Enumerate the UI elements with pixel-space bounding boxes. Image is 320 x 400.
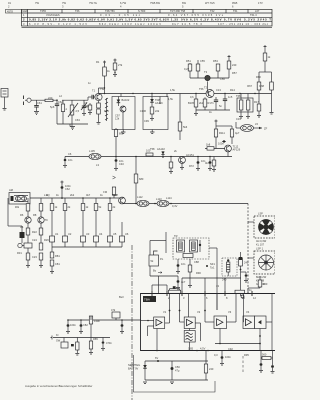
svg-text:C13: C13 <box>216 88 221 92</box>
svg-text:6W: 6W <box>182 1 186 5</box>
svg-text:AC151: AC151 <box>186 153 194 157</box>
svg-text:U5: U5 <box>113 232 117 236</box>
trimmer C3 <box>81 100 87 115</box>
svg-text:C61: C61 <box>37 101 42 105</box>
IF transformer TR2 box <box>236 94 253 117</box>
svg-text:12k: 12k <box>115 117 120 121</box>
svg-text:R95: R95 <box>244 353 249 357</box>
table header text <box>22 9 260 13</box>
tuned circuit frame L1 <box>57 100 88 124</box>
feedback components right <box>248 276 268 294</box>
svg-text:100n: 100n <box>70 323 76 327</box>
svg-text:Ausgabe in verschiedenen/Bae: Ausgabe in verschiedenen/Baenderungen Sc… <box>25 384 93 388</box>
svg-text:VOLTAGES: VOLTAGES <box>46 13 60 17</box>
svg-text:T56: T56 <box>199 87 204 91</box>
svg-text:240: 240 <box>232 63 237 67</box>
svg-text:V2: V2 <box>197 310 201 314</box>
svg-text:9k7 34,5 78,0: 9k7 34,5 78,0 <box>172 22 203 26</box>
cap 470n <box>102 338 104 342</box>
table row1 text <box>23 13 257 17</box>
wiring above box <box>152 278 241 310</box>
speaker box 1 <box>254 212 275 247</box>
svg-text:R72: R72 <box>189 164 194 168</box>
svg-text:C55: C55 <box>200 59 205 63</box>
transistor T1 <box>92 89 102 101</box>
power section boundary <box>134 355 216 392</box>
output transformer dashed box <box>173 234 209 259</box>
svg-text:Bu: Bu <box>153 269 157 273</box>
capacitor C1 <box>34 100 39 111</box>
svg-text:W7.7G5: W7.7G5 <box>205 1 215 5</box>
resistor ladder <box>89 341 92 349</box>
svg-text:T68.T56: T68.T56 <box>105 9 115 13</box>
svg-text:U3: U3 <box>86 232 90 236</box>
svg-text:L67: L67 <box>255 9 260 13</box>
coil L7 on mid rail <box>137 200 149 206</box>
resistor 680 at 136 <box>103 156 144 204</box>
svg-text:R57: R57 <box>232 71 237 75</box>
svg-text:R8: R8 <box>33 213 37 217</box>
svg-text:KL 107: KL 107 <box>256 243 265 247</box>
svg-text:6,7W: 6,7W <box>120 1 127 5</box>
svg-text:4,5V: 4,5V <box>200 347 206 351</box>
padder resistor <box>58 100 65 124</box>
svg-text:C6: C6 <box>68 152 72 156</box>
sheet frame numbers <box>8 1 263 8</box>
ferrite antenna box <box>9 188 30 204</box>
svg-text:Po: Po <box>160 257 164 261</box>
diode D5 <box>143 361 147 384</box>
regulator resistor <box>188 347 214 381</box>
svg-text:C92: C92 <box>228 347 233 351</box>
dash mark vertical <box>242 356 244 374</box>
svg-text:R171: R171 <box>208 101 215 105</box>
speaker feed wires <box>248 204 254 294</box>
resistor chain at 167 <box>167 94 174 102</box>
svg-text:9W5: 9W5 <box>232 1 238 5</box>
switch box <box>61 342 68 348</box>
antenna jack BU1 <box>24 96 32 106</box>
amp stage 2 <box>184 317 195 329</box>
left chain A transistor <box>15 198 38 267</box>
svg-text:R14: R14 <box>230 88 235 92</box>
top-right supply node + <box>227 55 237 78</box>
cap C14 <box>223 94 233 111</box>
svg-text:2k2: 2k2 <box>70 193 75 197</box>
resistor at 150 y155 <box>146 149 153 157</box>
table column line A <box>27 9 29 26</box>
svg-text:7W5.6W: 7W5.6W <box>150 1 160 5</box>
component value labels <box>17 60 261 357</box>
connector circle at box top <box>241 295 244 298</box>
svg-text:47μ: 47μ <box>175 369 180 373</box>
base bias resistor <box>84 101 92 114</box>
svg-text:AM: AM <box>9 188 13 192</box>
svg-text:T61: T61 <box>233 9 238 13</box>
svg-text:R60: R60 <box>256 75 261 79</box>
resistor from IF down at 116 <box>114 128 124 157</box>
right vertical from amp down <box>271 294 273 351</box>
amp stage 3 <box>214 316 227 329</box>
svg-text:TR7.680 T58: TR7.680 T58 <box>170 9 186 13</box>
wire jack to node A <box>31 99 57 101</box>
svg-text:U1: U1 <box>55 232 59 236</box>
left edge feed wire <box>8 198 25 243</box>
svg-text:T68: T68 <box>236 94 241 98</box>
svg-text:5p6: 5p6 <box>50 105 55 109</box>
speaker box 2 <box>254 247 275 287</box>
svg-text:100n: 100n <box>225 355 231 359</box>
svg-text:R90: R90 <box>196 271 201 275</box>
svg-text:BA102: BA102 <box>122 98 130 102</box>
svg-text:NF1: NF1 <box>210 262 215 266</box>
svg-text:LSP 1: LSP 1 <box>256 247 264 251</box>
svg-text:GER: GER <box>22 9 28 13</box>
table bottom double line <box>22 26 273 28</box>
left chain B transistor <box>38 198 48 267</box>
svg-text:6,3V 8,9V- 0,12V 1,52V: 6,3V 8,9V- 0,12V 1,52V <box>29 22 87 26</box>
IC label <box>143 296 156 302</box>
node A junction <box>56 99 58 101</box>
svg-text:140k: 140k <box>94 319 100 323</box>
svg-text:100n: 100n <box>218 142 224 146</box>
filter block under amp2 <box>184 331 195 343</box>
svg-text:C99: C99 <box>144 119 149 123</box>
svg-text:ZF: ZF <box>264 127 268 131</box>
svg-text:240: 240 <box>209 367 214 371</box>
trimmer circle <box>18 243 24 247</box>
capacitor C4 base coupling <box>88 95 95 100</box>
svg-text:C62: C62 <box>58 100 63 104</box>
shielded coil hatch <box>105 98 108 121</box>
svg-text:BATT 9V: BATT 9V <box>128 367 139 371</box>
right resistor R15 <box>247 80 261 94</box>
svg-text:30k: 30k <box>15 205 20 209</box>
svg-text:560: 560 <box>262 353 267 357</box>
svg-text:0,1: 0,1 <box>20 225 24 229</box>
svg-text:0,6: 0,6 <box>190 95 194 99</box>
svg-text:5k6: 5k6 <box>113 193 118 197</box>
transistor T2 <box>204 86 214 98</box>
table header ticks <box>62 9 248 13</box>
resistor 5k6 <box>178 94 188 141</box>
svg-text:R17: R17 <box>254 100 259 104</box>
svg-text:LSP: LSP <box>258 212 263 216</box>
switch contact row <box>50 211 125 248</box>
series resistor to pin <box>239 252 249 296</box>
coupling caps below transformer <box>176 259 192 289</box>
varicap transistor in frame 1 <box>120 106 126 112</box>
diode in frame 1 <box>117 100 121 103</box>
svg-text:C19: C19 <box>236 117 241 121</box>
svg-text:B105: B105 <box>188 101 195 105</box>
svg-text:V1: V1 <box>163 310 167 314</box>
volume pot box <box>149 232 178 294</box>
cap 100n bottom <box>220 351 231 366</box>
svg-text:27k: 27k <box>118 63 123 67</box>
cap C13 <box>214 97 218 110</box>
svg-text:R55: R55 <box>104 109 109 113</box>
capacitor C2 vertical <box>50 100 59 124</box>
resistor R1 horizontal <box>45 99 53 101</box>
IF stage frame 1 <box>112 94 135 130</box>
svg-text:T62: T62 <box>210 9 215 13</box>
cap 10n left end <box>63 157 73 168</box>
svg-text:2,5: 2,5 <box>76 109 80 113</box>
svg-text:1TV: 1TV <box>258 1 263 5</box>
junction dots mid rails <box>61 156 211 205</box>
mid rail left segment <box>62 197 122 199</box>
table row2 text (dark row) <box>23 18 271 22</box>
table row line 2 <box>22 16 273 18</box>
svg-text:1,5k: 1,5k <box>170 88 176 92</box>
T2 bias resistor R11 <box>188 94 198 116</box>
svg-text:0,64 V67.055 0h35 2Vs: 0,64 V67.055 0h35 2Vs <box>168 13 224 17</box>
svg-text:0,85 2,15V 2,1V 2,9k 0,82 0,62: 0,85 2,15V 2,1V 2,9k 0,82 0,62 0,9SV 0,9… <box>29 18 178 22</box>
ground IF frames <box>121 130 155 134</box>
left edge connector top <box>1 89 8 111</box>
svg-text:NETZTEIL: NETZTEIL <box>128 363 141 367</box>
svg-text:C24: C24 <box>32 238 37 242</box>
svg-text:T61.3: T61.3 <box>250 13 257 17</box>
svg-text:V4: V4 <box>246 310 250 314</box>
svg-text:T655: T655 <box>40 9 46 13</box>
svg-text:C88: C88 <box>194 260 199 264</box>
svg-text:L113: L113 <box>156 197 162 201</box>
svg-text:TR: TR <box>174 234 178 238</box>
svg-text:AF126: AF126 <box>233 148 241 152</box>
transistor T5 <box>112 193 125 204</box>
table row line 3 <box>22 21 273 23</box>
switch column drops <box>52 198 110 204</box>
svg-text:C40: C40 <box>119 162 124 166</box>
svg-text:1n5: 1n5 <box>228 95 233 99</box>
T2 resistor R12 <box>203 97 214 110</box>
diode D1 <box>150 94 163 108</box>
svg-text:AA119: AA119 <box>155 101 163 105</box>
svg-text:4Ω 0,3W: 4Ω 0,3W <box>256 239 267 243</box>
svg-text:6V: 6V <box>155 356 158 360</box>
IF stage frame 2 <box>143 97 168 130</box>
RC row at 170 <box>169 157 173 173</box>
supply branch + <box>103 61 111 94</box>
svg-text:4578: 4578 <box>7 9 13 13</box>
svg-text:T52: T52 <box>100 87 105 91</box>
table row3 text <box>23 22 269 26</box>
audio amplifier IC box <box>141 294 276 351</box>
top rail <box>99 93 272 95</box>
svg-text:107 - 251 26k 10 . 303 2kc: 107 - 251 26k 10 . 303 2kc <box>218 22 269 26</box>
svg-text:S.TRF: S.TRF <box>138 9 146 13</box>
svg-text:L105: L105 <box>89 149 95 153</box>
cap C50 <box>170 361 180 384</box>
svg-text:V3: V3 <box>228 310 232 314</box>
AF preamp cluster <box>205 120 241 157</box>
transformer output wire <box>206 248 217 310</box>
rail junctions <box>104 93 256 94</box>
svg-text:2k2: 2k2 <box>199 101 204 105</box>
svg-text:1k8: 1k8 <box>206 143 211 147</box>
coil L8 on mid rail <box>156 197 169 207</box>
coil L5 output <box>236 122 268 131</box>
table row line 1 <box>22 12 273 14</box>
board boundary dash-dot <box>131 245 133 400</box>
bottom rail junctions <box>156 343 221 352</box>
svg-text:890: 890 <box>119 132 124 136</box>
NF2 network dashed box <box>222 258 237 282</box>
svg-text:C62: C62 <box>65 187 70 191</box>
svg-text:7W.7G: 7W.7G <box>89 1 97 5</box>
switch row resistors <box>50 204 116 211</box>
main bottom rail <box>215 343 260 345</box>
svg-text:10n: 10n <box>68 158 73 162</box>
emitter resistors T1 <box>97 101 101 124</box>
coil L1 variable <box>64 100 80 124</box>
resistor 1k bottom right <box>259 351 275 374</box>
svg-text:TBA: TBA <box>144 298 150 302</box>
voltage table <box>6 9 273 27</box>
svg-text:U6: U6 <box>125 232 129 236</box>
svg-text:R67: R67 <box>247 84 252 88</box>
svg-text:8Ω 0,2W: 8Ω 0,2W <box>256 275 267 279</box>
svg-text:U2: U2 <box>68 232 72 236</box>
svg-text:R53: R53 <box>213 59 218 63</box>
svg-text:22k: 22k <box>155 109 160 113</box>
svg-text:470n: 470n <box>106 341 112 345</box>
svg-text:U4: U4 <box>99 232 103 236</box>
svg-text:T66: T66 <box>75 9 80 13</box>
svg-text:0,85: 0,85 <box>188 347 194 351</box>
svg-text:FM: FM <box>103 190 107 194</box>
svg-text:R26: R26 <box>44 238 49 242</box>
supply loop wire <box>145 356 208 380</box>
svg-text:862,0kHz 103V 1kHz 100mV: 862,0kHz 103V 1kHz 100mV <box>99 22 161 26</box>
svg-text:0V9 6,2V 0,3V 8,45V 0,7V 8V6: 0V9 6,2V 0,3V 8,45V 0,7V 8V6 <box>181 18 241 22</box>
oscillator cluster T3 <box>186 59 229 94</box>
resistor 22k below D1 <box>140 107 160 120</box>
svg-text:0,22: 0,22 <box>184 67 190 71</box>
ground below C1 <box>34 112 39 115</box>
table frame <box>22 9 273 26</box>
svg-text:R51: R51 <box>186 59 191 63</box>
wire antenna to node <box>30 197 62 199</box>
svg-text:C106: C106 <box>140 109 147 113</box>
tone network wire <box>51 336 113 356</box>
amp interconnect wires <box>141 286 272 350</box>
svg-text:680: 680 <box>139 177 144 181</box>
svg-text:FQ: FQ <box>46 193 50 197</box>
resistor at 225 <box>205 157 216 172</box>
grounds under TR2 <box>239 117 250 119</box>
amp stage 1 <box>154 317 165 329</box>
right resistor R16 <box>259 80 273 94</box>
ground tuned circuit <box>70 124 75 130</box>
svg-text:R68: R68 <box>259 84 264 88</box>
svg-text:L114: L114 <box>166 196 172 200</box>
svg-text:0,3: 0,3 <box>214 353 218 357</box>
svg-text:4k7: 4k7 <box>205 161 210 165</box>
svg-text:SW: SW <box>56 339 61 343</box>
svg-text:C81: C81 <box>55 262 60 266</box>
svg-text:R111: R111 <box>219 131 225 135</box>
svg-text:L112: L112 <box>137 195 143 199</box>
svg-text:R1: R1 <box>96 60 100 64</box>
svg-text:C23: C23 <box>32 255 37 259</box>
svg-text:7W: 7W <box>62 1 66 5</box>
svg-text:5k6: 5k6 <box>183 125 188 129</box>
mid rail right segment <box>122 203 248 205</box>
supply caps left of box <box>66 316 141 338</box>
detector row wire <box>65 156 232 158</box>
svg-text:R22: R22 <box>32 230 37 234</box>
svg-text:4k7: 4k7 <box>86 193 91 197</box>
cap 10n at 116 <box>114 157 124 171</box>
svg-text:C82: C82 <box>83 323 88 327</box>
resistor R3 27k <box>113 59 123 77</box>
resistor to ground <box>76 342 79 350</box>
svg-text:1,5k: 1,5k <box>168 97 174 101</box>
cap 100n branch <box>61 181 72 199</box>
transistor T4 <box>179 157 186 169</box>
svg-text:C50: C50 <box>175 365 180 369</box>
cap at boundary <box>111 308 124 333</box>
svg-text:220: 220 <box>263 282 268 286</box>
netzteil label <box>128 363 141 371</box>
svg-text:5,2V5 2V45 T: 5,2V5 2V45 T <box>244 18 271 22</box>
right supply branch <box>259 45 272 80</box>
svg-text:C56: C56 <box>220 77 225 81</box>
svg-text:0,4V: 0,4V <box>172 204 178 208</box>
transistor T112 <box>225 145 232 152</box>
svg-text:4μ7: 4μ7 <box>235 131 240 135</box>
svg-text:7W: 7W <box>35 1 39 5</box>
table corner cell <box>6 9 22 13</box>
svg-text:R85: R85 <box>93 337 98 341</box>
svg-text:R31: R31 <box>17 251 22 255</box>
svg-text:Tp1: Tp1 <box>210 266 215 270</box>
svg-text:C63: C63 <box>75 118 80 122</box>
switch common chain <box>50 247 60 273</box>
right vertical drops <box>257 94 274 118</box>
svg-text:240: 240 <box>244 261 249 265</box>
coil L3 <box>89 149 101 160</box>
svg-text:R6: R6 <box>20 213 24 217</box>
detector diode D2 <box>157 147 165 158</box>
svg-text:AA132: AA132 <box>157 147 165 151</box>
collector wire to rail <box>98 88 100 93</box>
horizontal link under T2 <box>196 109 230 111</box>
svg-text:R81: R81 <box>55 254 60 258</box>
svg-text:47k: 47k <box>111 308 116 312</box>
svg-text:T58: T58 <box>150 147 155 151</box>
chain link wire <box>28 225 34 227</box>
caps at 198 210 <box>196 157 216 170</box>
svg-text:10n: 10n <box>181 262 186 266</box>
svg-text:Bu3: Bu3 <box>119 295 124 299</box>
amp stage 4 with output <box>243 316 266 329</box>
pins on box top <box>152 291 252 296</box>
